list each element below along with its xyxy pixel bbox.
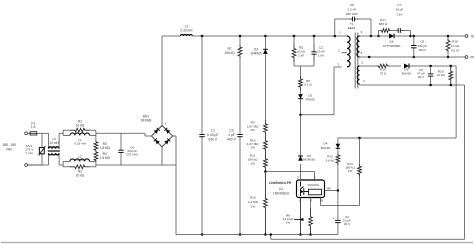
outer return bus [270,235,272,240]
svg-text:10 kΩ: 10 kΩ [76,123,85,127]
resistor R3 [95,130,97,135]
svg-text:5.6 kΩ: 5.6 kΩ [326,158,336,162]
resistor R14 [358,137,361,140]
bridge diodes [154,129,158,133]
svg-text:STTH2R06D: STTH2R06D [383,44,401,48]
svg-text:10 µF: 10 µF [395,8,403,12]
svg-text:1%: 1% [286,220,291,224]
capacitor C9 [413,35,416,38]
output terminal 76V [465,35,468,38]
wire bridge AC2 [173,135,176,137]
resistor R12 [264,170,267,173]
resistor R1 [62,130,64,135]
svg-text:1: 1 [339,30,341,34]
svg-text:D: D [297,176,299,180]
svg-text:7 mm: 7 mm [25,151,33,155]
wire [96,132,121,134]
svg-text:1%: 1% [251,204,256,208]
svg-text:2.2 nF: 2.2 nF [347,8,356,12]
svg-text:MUR160: MUR160 [303,158,315,162]
resistor R9 [264,121,268,136]
resistor R11 [264,155,268,172]
svg-text:1N4005: 1N4005 [251,52,262,56]
capacitor C5 [429,65,432,68]
svg-text:5.1 Ω: 5.1 Ω [304,83,312,87]
capacitor C8 [334,35,337,38]
V pin wire [265,171,314,173]
svg-text:400 V: 400 V [227,137,236,141]
svg-text:U1: U1 [279,187,283,191]
svg-text:1%: 1% [250,128,255,132]
svg-text:275 VAC: 275 VAC [126,152,139,156]
inductor L1 [63,134,70,136]
svg-text:10 mH: 10 mH [49,141,59,145]
svg-text:+: + [333,217,335,221]
svg-text:BAV20: BAV20 [402,71,412,75]
svg-text:35 V: 35 V [418,75,425,79]
svg-text:1.4 MΩ: 1.4 MΩ [248,200,259,204]
svg-text:1 kV: 1 kV [318,54,325,58]
fuse F1 [30,132,37,135]
resistor R2 [63,166,70,168]
svg-text:185 - 265: 185 - 265 [2,143,16,147]
resistor R7 [239,35,242,38]
capacitor C1 [201,35,204,38]
svg-text:160 V: 160 V [418,48,427,52]
svg-text:1%: 1% [250,161,255,165]
svg-text:75 Ω: 75 Ω [380,71,387,75]
svg-text:0.33 mH: 0.33 mH [74,141,86,145]
page footer line [1,242,473,244]
diode D6 [371,35,389,37]
svg-text:BP: BP [327,186,331,190]
svg-text:76 V: 76 V [471,34,474,38]
svg-text:5: 5 [361,60,363,64]
svg-text:R17: R17 [380,18,386,22]
AC input terminal bottom [25,164,28,167]
svg-text:R18: R18 [452,40,458,44]
svg-text:0.33 mH: 0.33 mH [74,158,86,162]
svg-text:12 kΩ: 12 kΩ [437,73,446,77]
svg-text:8: 8 [361,51,363,55]
resistor R8 [309,208,313,235]
wire [96,164,176,166]
diode D3 [298,156,303,161]
drain node wire [299,114,302,117]
resistor R16 [376,64,390,68]
svg-text:3: 3 [338,62,340,66]
diode D4 [337,138,339,144]
svg-text:FR105: FR105 [306,97,316,101]
svg-text:1%: 1% [250,146,255,150]
svg-text:EE19: EE19 [348,26,356,30]
common-mode choke L4 [48,133,50,148]
IC U1 outline [297,180,325,198]
svg-text:630 V: 630 V [208,137,217,141]
inductor L2 [62,161,64,166]
top bus wire [162,35,181,37]
svg-text:DF06M: DF06M [141,119,152,123]
svg-text:LinkSwitch-PH: LinkSwitch-PH [269,181,292,185]
svg-text:BAV20: BAV20 [321,146,331,150]
svg-text:2: 2 [338,49,340,53]
varistor RV1 [41,133,43,147]
svg-text:RTN: RTN [471,55,474,59]
svg-text:0.33 mH: 0.33 mH [180,29,193,33]
svg-text:0.5 W: 0.5 W [451,48,459,52]
svg-text:150 kΩ: 150 kΩ [224,51,235,55]
capacitor C6 [120,133,122,150]
inductor L3 [181,35,193,36]
resistor R6 [300,66,302,76]
resistor R18 [447,35,450,38]
svg-text:1 kV: 1 kV [396,12,403,16]
svg-text:1 A: 1 A [31,125,36,129]
svg-text:1.8 MΩ: 1.8 MΩ [100,146,111,150]
svg-text:1.8 MΩ: 1.8 MΩ [100,156,111,160]
svg-text:9: 9 [361,30,363,34]
wire bias to FB feed [455,66,457,138]
svg-text:16 V: 16 V [344,222,351,226]
svg-text:2 W: 2 W [298,54,304,58]
diode D1 [300,90,302,94]
snubber R17 C7 [377,35,380,38]
output terminal RTN [465,56,468,59]
svg-text:250 VAC: 250 VAC [346,12,359,16]
svg-text:10 kΩ: 10 kΩ [76,174,85,178]
svg-text:D6: D6 [390,39,394,43]
primary return bus [176,234,338,236]
svg-text:VAC: VAC [6,148,13,152]
diode D5 [390,65,401,67]
resistor R4 [94,151,98,161]
resistor R10 [264,136,268,155]
transformer T1 core [354,33,356,89]
wire bias return [464,85,466,239]
wire bridge DC- [161,147,163,165]
output wire [410,35,465,37]
svg-text:C7: C7 [397,3,401,7]
svg-text:LNK403EG: LNK403EG [273,192,290,196]
clamp network R5 C2 [293,35,296,38]
resistor R19 [450,65,453,68]
svg-text:C8: C8 [350,3,354,7]
bridge rectifier BR1 [152,126,173,147]
capacitor C3 [239,58,241,133]
svg-text:680 Ω: 680 Ω [379,22,388,26]
svg-text:V: V [314,176,316,180]
svg-text:47 kΩ: 47 kΩ [451,44,460,48]
svg-text:4: 4 [363,79,365,83]
AC input terminal top [25,132,28,135]
RTN rail [369,56,465,58]
svg-text:+: + [165,122,167,126]
wire bridge DC+ [161,36,163,126]
svg-text:1%: 1% [348,169,353,173]
svg-text:R12: R12 [250,195,256,199]
diode D2 [264,35,267,38]
svg-text:CONTROL: CONTROL [307,184,320,187]
resistor R13 [336,153,340,165]
